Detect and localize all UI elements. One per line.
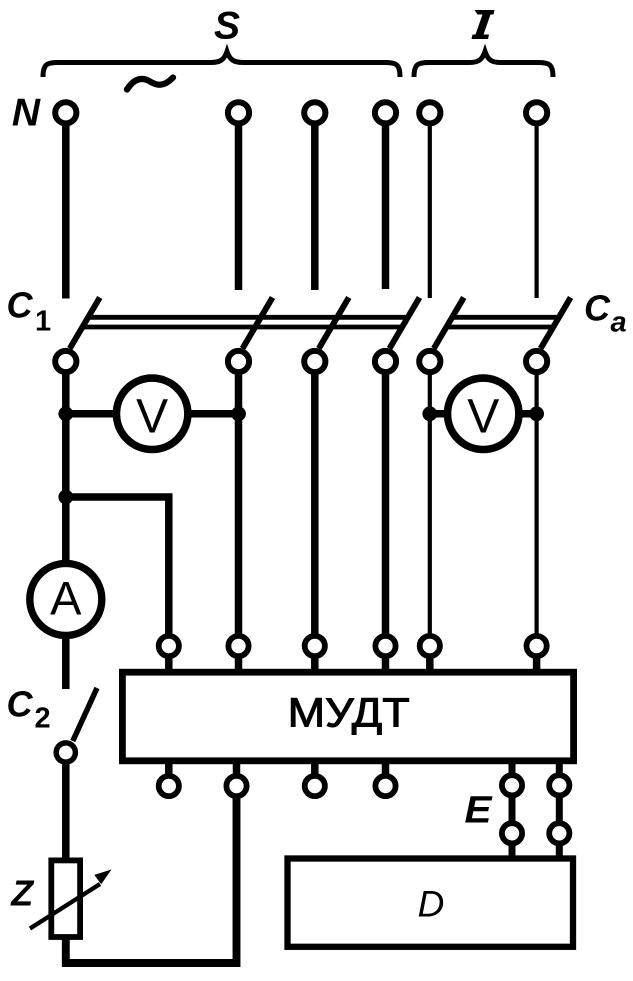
voltmeter V1 wires — [66, 410, 115, 418]
junction dot wire1-voltmeter — [58, 406, 73, 421]
wire 3 below switch — [311, 375, 319, 638]
AC tilde — [127, 78, 173, 90]
svg-text:C: C — [584, 287, 611, 328]
switch 1 contact circle — [55, 351, 76, 372]
switch 5 contact circle — [419, 351, 440, 372]
terminal 3 top — [304, 102, 325, 123]
terminal 2 top — [228, 102, 249, 123]
junction dot wire2-voltmeter — [231, 406, 246, 421]
svg-text:1: 1 — [35, 306, 51, 338]
MUDT top terminal 2 — [228, 636, 248, 669]
junction dot wire6-voltmeter — [529, 406, 544, 421]
wire junction to MUDT terminal 1 — [66, 497, 169, 636]
wire 4 below switch — [382, 375, 390, 638]
switch 4 blade — [390, 298, 420, 349]
wire 6 below switch — [534, 375, 538, 638]
MUDT bottom terminal 1 — [159, 764, 179, 796]
wire 1 below switch — [62, 375, 70, 562]
terminal 1 top — [55, 102, 76, 123]
MUDT top terminal 5 — [420, 636, 440, 669]
wire 5 below switch — [428, 375, 432, 638]
svg-text:C: C — [7, 284, 34, 325]
switch 3 blade — [319, 298, 349, 349]
svg-text:V: V — [136, 391, 168, 444]
MUDT box U1 — [122, 672, 573, 761]
wire 2 upper — [235, 124, 243, 290]
wire 3 upper — [311, 124, 319, 290]
brace I — [414, 52, 553, 78]
resistor Z variability arrow — [30, 884, 100, 929]
wire A to C2 — [62, 637, 70, 689]
MUDT bottom terminal 4 — [375, 764, 395, 796]
switch 2 contact circle — [228, 351, 249, 372]
wire C2 to Z — [62, 765, 70, 861]
label I — [472, 10, 495, 39]
switch 4 contact circle — [375, 351, 396, 372]
svg-text:МУДТ: МУДТ — [288, 690, 410, 736]
svg-text:E: E — [465, 789, 494, 831]
svg-text:D: D — [418, 884, 445, 925]
switch linkage bar left — [83, 317, 408, 327]
terminal 4 top — [375, 102, 396, 123]
switch 6 contact circle — [526, 351, 547, 372]
wire 5 upper — [428, 124, 432, 298]
svg-text:V: V — [467, 391, 499, 444]
MUDT bottom terminal 3 — [305, 764, 325, 796]
resistor Z body — [51, 860, 80, 937]
switch 6 blade — [541, 298, 571, 349]
contact pair E column 2 — [549, 764, 569, 858]
label C2 — [7, 683, 51, 734]
voltmeter V1 — [116, 378, 187, 449]
MUDT top terminal 4 — [375, 636, 395, 669]
wire 1 upper — [62, 124, 70, 299]
terminal 6 top — [526, 102, 547, 123]
MUDT top terminal 6 — [527, 636, 547, 669]
switch linkage bar right — [447, 317, 560, 327]
label Ca — [584, 287, 627, 338]
junction dot wire1 corner — [58, 490, 73, 505]
ammeter A — [30, 563, 102, 635]
svg-text:2: 2 — [35, 703, 51, 735]
wire 4 upper — [382, 124, 390, 289]
wire 6 upper — [534, 124, 538, 298]
wire 2 below switch — [235, 375, 243, 638]
bottom return wire — [66, 797, 237, 963]
device box D — [288, 859, 574, 947]
switch C2 blade — [73, 688, 97, 741]
svg-text:S: S — [214, 5, 240, 48]
svg-text:N: N — [12, 92, 41, 135]
svg-text:A: A — [50, 571, 82, 624]
svg-text:Z: Z — [10, 873, 35, 914]
terminal 5 top — [419, 102, 440, 123]
svg-text:a: a — [611, 307, 627, 339]
junction dot wire5-voltmeter — [422, 406, 437, 421]
switch 2 blade — [243, 298, 273, 349]
svg-text:C: C — [7, 683, 34, 724]
switch 5 blade — [434, 298, 464, 349]
voltmeter V2 — [448, 378, 519, 449]
brace S — [43, 52, 400, 78]
switch C2 contact circle — [56, 743, 75, 762]
contact pair E column 1 — [502, 764, 522, 858]
switch 3 contact circle — [304, 351, 325, 372]
label C1 — [7, 284, 52, 337]
MUDT bottom terminal 2 — [226, 764, 246, 796]
switch 1 blade — [70, 298, 100, 349]
MUDT top terminal 3 — [305, 636, 325, 669]
voltmeter V2 wires — [430, 410, 446, 418]
MUDT top terminal 1 — [159, 636, 179, 669]
